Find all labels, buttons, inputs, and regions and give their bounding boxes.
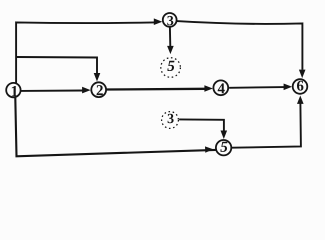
node 6 (293, 79, 308, 94)
wire 1-2 (up from node 1, right, then down into node 2 top) (16, 57, 100, 82)
wire 3-6 (node 3 right then down into node 6 top) (177, 21, 306, 78)
wire 1-5 (down from node 1, along bottom, into node 5 left) (15, 98, 215, 157)
wire 1-2 direct (node 1 right to node 2 left) (21, 87, 91, 94)
node 5 (lower) (216, 140, 231, 155)
node 2 (91, 82, 106, 97)
wire 4-6 (229, 84, 292, 91)
wire 5-6 (node 5 right then up into node 6 bottom) (232, 96, 304, 148)
wire 1-3 (up from node 1 then right to node 3) (16, 18, 162, 83)
node 3 (dashed, lower) (162, 112, 179, 129)
node 4 (213, 80, 228, 95)
node 1 (6, 83, 20, 97)
wire 2-4 (106, 85, 212, 92)
wire dashed3-5 (dashed node 3 right then down into node 5 top) (179, 119, 227, 139)
wire 3-5 dashed-target (node 3 down into dashed node 5) (167, 27, 174, 54)
node 3 (top) (163, 13, 177, 27)
node 5 (dashed, upper) (161, 58, 181, 78)
